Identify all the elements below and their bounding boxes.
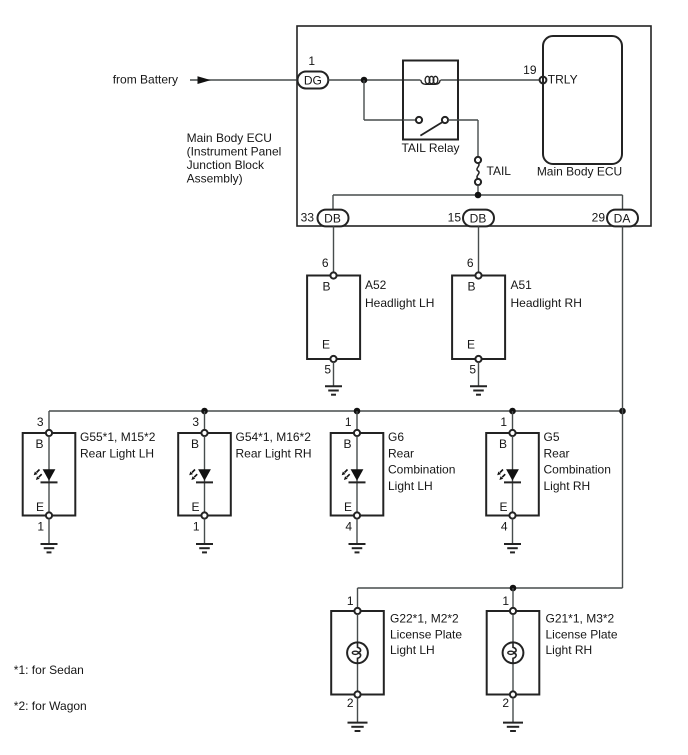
svg-text:1: 1 <box>308 54 315 68</box>
svg-text:G54*1, M16*2: G54*1, M16*2 <box>236 430 312 444</box>
svg-text:B: B <box>343 437 351 451</box>
svg-text:1: 1 <box>345 415 352 429</box>
svg-text:B: B <box>35 437 43 451</box>
svg-text:1: 1 <box>500 415 507 429</box>
svg-text:Light RH: Light RH <box>544 479 591 493</box>
svg-text:E: E <box>467 338 475 352</box>
svg-text:Combination: Combination <box>544 463 611 477</box>
svg-text:1: 1 <box>193 520 200 534</box>
svg-text:B: B <box>322 280 330 294</box>
svg-text:5: 5 <box>324 363 331 377</box>
svg-text:A52: A52 <box>365 278 387 292</box>
svg-text:G6: G6 <box>388 430 404 444</box>
svg-text:1: 1 <box>37 520 44 534</box>
svg-text:Junction Block: Junction Block <box>187 158 265 172</box>
svg-text:(Instrument Panel: (Instrument Panel <box>187 144 282 158</box>
svg-text:1: 1 <box>347 594 354 608</box>
svg-text:Light RH: Light RH <box>546 643 593 657</box>
svg-text:G5: G5 <box>544 430 560 444</box>
svg-text:1: 1 <box>502 594 509 608</box>
svg-text:License Plate: License Plate <box>546 627 618 641</box>
svg-text:*2: for Wagon: *2: for Wagon <box>14 699 87 713</box>
svg-text:Assembly): Assembly) <box>187 172 243 186</box>
svg-text:Rear Light RH: Rear Light RH <box>236 446 312 460</box>
svg-text:DG: DG <box>304 74 322 88</box>
svg-text:Rear: Rear <box>544 446 570 460</box>
svg-text:B: B <box>191 437 199 451</box>
svg-text:29: 29 <box>592 211 606 225</box>
svg-text:E: E <box>191 500 199 514</box>
svg-text:E: E <box>36 500 44 514</box>
svg-text:E: E <box>499 500 507 514</box>
svg-text:15: 15 <box>448 211 462 225</box>
svg-text:4: 4 <box>501 520 508 534</box>
svg-text:2: 2 <box>502 696 509 710</box>
svg-text:2: 2 <box>347 696 354 710</box>
svg-text:Light LH: Light LH <box>388 479 433 493</box>
svg-text:3: 3 <box>37 415 44 429</box>
svg-text:5: 5 <box>469 363 476 377</box>
svg-text:6: 6 <box>467 256 474 270</box>
svg-text:E: E <box>322 338 330 352</box>
svg-text:E: E <box>344 500 352 514</box>
svg-text:DB: DB <box>470 212 487 226</box>
svg-text:G22*1, M2*2: G22*1, M2*2 <box>390 612 459 626</box>
svg-text:B: B <box>467 280 475 294</box>
svg-text:Rear: Rear <box>388 446 414 460</box>
svg-text:Rear Light LH: Rear Light LH <box>80 446 154 460</box>
svg-text:TRLY: TRLY <box>548 73 578 87</box>
svg-text:3: 3 <box>192 415 199 429</box>
svg-text:33: 33 <box>301 211 315 225</box>
svg-text:Headlight LH: Headlight LH <box>365 296 434 310</box>
svg-text:Combination: Combination <box>388 463 455 477</box>
svg-text:Main Body ECU: Main Body ECU <box>537 165 622 179</box>
svg-text:G21*1, M3*2: G21*1, M3*2 <box>546 612 615 626</box>
svg-text:A51: A51 <box>511 278 533 292</box>
svg-text:6: 6 <box>322 256 329 270</box>
svg-text:License Plate: License Plate <box>390 627 462 641</box>
svg-text:*1: for Sedan: *1: for Sedan <box>14 663 84 677</box>
svg-text:19: 19 <box>523 63 537 77</box>
svg-text:TAIL Relay: TAIL Relay <box>401 141 459 155</box>
svg-text:DB: DB <box>324 212 341 226</box>
svg-text:from Battery: from Battery <box>113 73 178 87</box>
svg-text:Main Body ECU: Main Body ECU <box>187 131 272 145</box>
svg-text:Headlight RH: Headlight RH <box>511 296 582 310</box>
svg-text:Light LH: Light LH <box>390 643 435 657</box>
svg-text:TAIL: TAIL <box>487 164 512 178</box>
svg-text:4: 4 <box>345 520 352 534</box>
svg-text:DA: DA <box>614 212 631 226</box>
svg-text:G55*1, M15*2: G55*1, M15*2 <box>80 430 156 444</box>
svg-text:B: B <box>499 437 507 451</box>
